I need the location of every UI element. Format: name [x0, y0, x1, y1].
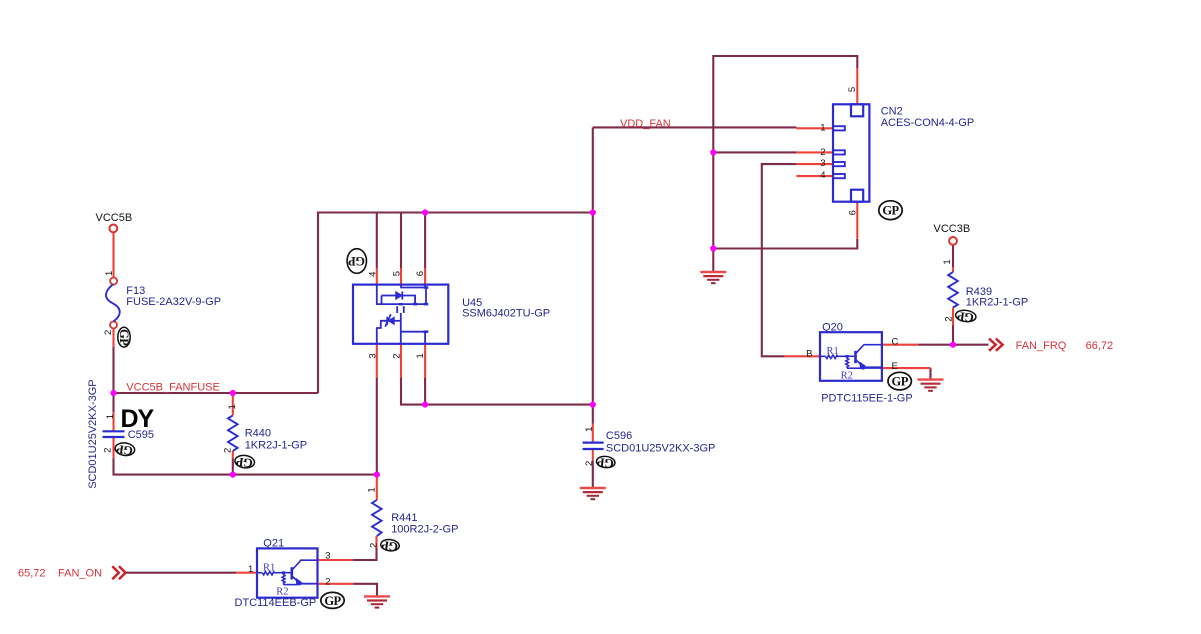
svg-text:GP: GP [235, 454, 254, 470]
svg-text:2: 2 [103, 448, 114, 453]
svg-text:1: 1 [820, 123, 825, 134]
svg-text:5: 5 [392, 271, 403, 276]
svg-text:R441: R441 [391, 512, 417, 524]
svg-text:2: 2 [944, 316, 955, 321]
svg-text:65,72: 65,72 [18, 567, 46, 579]
svg-text:E: E [892, 361, 898, 372]
svg-text:GP: GP [892, 375, 909, 389]
svg-text:SSM6J402TU-GP: SSM6J402TU-GP [462, 308, 550, 320]
svg-text:3: 3 [820, 158, 825, 169]
svg-text:2: 2 [820, 147, 825, 158]
svg-text:B: B [806, 348, 812, 359]
svg-text:3: 3 [368, 353, 379, 358]
svg-text:6: 6 [415, 271, 426, 276]
svg-text:4: 4 [820, 170, 825, 181]
svg-text:PDTC115EE-1-GP: PDTC115EE-1-GP [821, 393, 913, 405]
svg-text:ACES-CON4-4-GP: ACES-CON4-4-GP [881, 117, 975, 129]
svg-text:2: 2 [584, 461, 595, 466]
svg-text:GP: GP [115, 442, 134, 458]
svg-text:1KR2J-1-GP: 1KR2J-1-GP [966, 297, 1028, 309]
svg-text:3: 3 [325, 551, 330, 562]
svg-text:6: 6 [848, 210, 859, 215]
svg-text:1: 1 [366, 487, 377, 492]
svg-text:1: 1 [227, 404, 238, 409]
svg-text:1: 1 [415, 353, 426, 358]
svg-text:1KR2J-1-GP: 1KR2J-1-GP [245, 440, 307, 452]
svg-text:GP: GP [596, 455, 615, 471]
svg-text:VCC3B: VCC3B [934, 223, 971, 235]
svg-text:C596: C596 [606, 430, 632, 442]
svg-text:2: 2 [368, 543, 379, 548]
svg-text:1: 1 [942, 259, 953, 264]
svg-text:Q21: Q21 [263, 538, 284, 550]
svg-text:2: 2 [223, 448, 234, 453]
svg-text:1: 1 [584, 427, 595, 432]
svg-text:GP: GP [348, 254, 365, 268]
svg-text:R1: R1 [827, 346, 839, 357]
svg-text:2: 2 [325, 577, 330, 588]
svg-text:2: 2 [392, 353, 403, 358]
svg-text:100R2J-2-GP: 100R2J-2-GP [391, 524, 458, 536]
svg-text:GP: GP [117, 329, 131, 346]
svg-text:4: 4 [368, 272, 379, 277]
svg-text:R2: R2 [276, 586, 288, 597]
svg-text:R1: R1 [263, 562, 275, 573]
svg-text:R440: R440 [245, 428, 271, 440]
svg-text:1: 1 [248, 564, 253, 575]
svg-text:VCC5B_FANFUSE: VCC5B_FANFUSE [126, 382, 220, 394]
svg-text:CN2: CN2 [881, 106, 903, 118]
svg-text:VDD_FAN: VDD_FAN [620, 118, 671, 130]
svg-text:Q20: Q20 [822, 321, 843, 333]
svg-text:SCD01U25V2KX-3GP: SCD01U25V2KX-3GP [87, 379, 99, 488]
svg-text:DY: DY [121, 405, 155, 433]
svg-text:5: 5 [847, 87, 858, 92]
svg-text:1: 1 [104, 271, 115, 276]
svg-text:SCD01U25V2KX-3GP: SCD01U25V2KX-3GP [606, 443, 715, 455]
svg-text:R2: R2 [841, 370, 853, 381]
svg-text:GP: GP [324, 594, 341, 608]
svg-text:GP: GP [380, 538, 399, 554]
svg-text:VCC5B: VCC5B [96, 212, 133, 224]
svg-text:1: 1 [105, 414, 116, 419]
svg-text:FAN_ON: FAN_ON [58, 567, 102, 579]
svg-text:FUSE-2A32V-9-GP: FUSE-2A32V-9-GP [126, 296, 221, 308]
svg-text:C: C [892, 337, 899, 348]
svg-text:GP: GP [882, 204, 899, 218]
svg-text:2: 2 [103, 330, 114, 335]
svg-text:GP: GP [956, 309, 975, 325]
svg-text:66,72: 66,72 [1086, 340, 1114, 352]
svg-text:DTC114EEB-GP: DTC114EEB-GP [235, 597, 317, 609]
svg-text:FAN_FRQ: FAN_FRQ [1016, 340, 1067, 352]
